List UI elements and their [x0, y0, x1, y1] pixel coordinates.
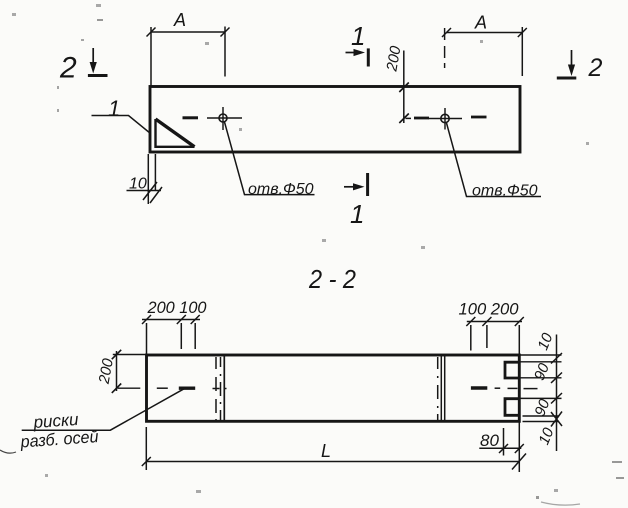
- right dimension chain extension lines: [520, 355, 562, 422]
- dimension 100 200 (section top-right): [459, 300, 524, 356]
- chain labels 10 90 90 10: [531, 330, 558, 447]
- leader отв.Ф50 right: [447, 123, 542, 200]
- svg-text:отв.Ф50: отв.Ф50: [248, 181, 314, 198]
- svg-text:A: A: [474, 13, 487, 33]
- right hole axis dashes: [406, 117, 487, 118]
- svg-text:2: 2: [588, 54, 603, 82]
- svg-text:200 100: 200 100: [147, 298, 207, 317]
- svg-text:L: L: [321, 441, 331, 461]
- right formwork joint lines: [438, 355, 445, 421]
- svg-text:1: 1: [350, 199, 364, 229]
- svg-text:10: 10: [535, 425, 557, 447]
- upper recess square: [505, 362, 519, 378]
- section axis line with riska marks: [118, 387, 538, 390]
- dimension 80: [479, 428, 524, 456]
- left formwork joint lines: [216, 355, 224, 421]
- svg-text:10: 10: [534, 330, 556, 352]
- leader and label 1: [92, 96, 151, 134]
- svg-text:1: 1: [351, 21, 365, 51]
- embedded corner plate (triangle) item 1: [156, 119, 195, 147]
- right hole отв. Ф50: [429, 108, 463, 130]
- left hole axis dash: [183, 116, 199, 119]
- svg-text:1: 1: [108, 96, 120, 121]
- dimension L: [142, 422, 526, 473]
- svg-text:A: A: [173, 10, 186, 30]
- section mark 2 right: [557, 50, 603, 82]
- section mark 1 bottom: [344, 173, 368, 229]
- svg-text:100 200: 100 200: [459, 300, 520, 319]
- section mark 2 left: [59, 48, 108, 85]
- svg-text:200: 200: [383, 44, 404, 73]
- dimension 200 100 (section top-left): [142, 298, 207, 355]
- svg-text:90: 90: [531, 360, 553, 382]
- dimension A left: [147, 10, 230, 86]
- dimension 200 left (section): [96, 350, 147, 393]
- dimension A right: [442, 13, 527, 77]
- right dimension chain line: [551, 335, 562, 452]
- svg-text:10: 10: [129, 176, 147, 193]
- lower recess square: [505, 399, 519, 416]
- leader риски разб. осей: [0, 389, 184, 453]
- plan view: main panel outline: [150, 87, 520, 153]
- left hole отв. Ф50: [207, 107, 242, 130]
- 10 dimension extension lines: [148, 154, 155, 204]
- dimension 200 vertical (top view): [383, 44, 409, 123]
- 10 dimension line and ticks: [127, 176, 163, 204]
- svg-text:2 - 2: 2 - 2: [308, 264, 356, 294]
- section view: panel outline: [147, 355, 520, 421]
- svg-text:отв.Ф50: отв.Ф50: [472, 183, 538, 200]
- svg-text:2: 2: [59, 52, 77, 85]
- leader отв.Ф50 left: [225, 122, 315, 198]
- svg-text:80: 80: [480, 431, 499, 450]
- svg-text:200: 200: [96, 357, 117, 386]
- section mark 1 top: [346, 21, 369, 67]
